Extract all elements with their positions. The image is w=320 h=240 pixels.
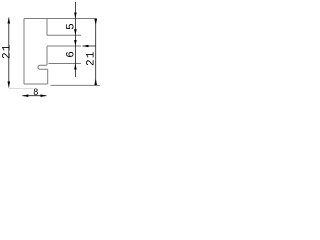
dimension 21 left: line bbox=[8, 18, 10, 88]
part outline: inner vertical lower bbox=[47, 69, 49, 84]
part outline: slot bbox=[38, 65, 48, 69]
part outline: inner vertical upper bbox=[46, 19, 48, 36]
svg-text:21: 21 bbox=[86, 50, 98, 66]
svg-text:6: 6 bbox=[66, 51, 78, 58]
dimension 8: right arrow bbox=[41, 94, 47, 97]
leader arrow at mid-right pointing left bbox=[83, 45, 96, 47]
dimension 8: left arrow bbox=[22, 94, 28, 97]
part outline: left edge bbox=[23, 19, 25, 85]
dimension 6: top arrow (pointing down at mid line) bbox=[74, 40, 77, 46]
dimension 5: bottom arrow (pointing down at tab bottom) bbox=[74, 29, 77, 35]
dimension 21 left: bottom arrow bbox=[8, 82, 11, 88]
svg-text:5: 5 bbox=[66, 23, 78, 30]
dimension 5/6 shared line bbox=[74, 2, 76, 77]
dimension 5: top arrow (above top edge, pointing down) bbox=[74, 13, 77, 19]
part outline: tab bottom edge bbox=[47, 34, 81, 36]
part outline: lower-right block top edge bbox=[49, 63, 82, 65]
dimension 21 right: top arrow bbox=[94, 19, 97, 25]
part outline: bottom-right edge bbox=[51, 84, 101, 86]
svg-text:21: 21 bbox=[1, 43, 13, 59]
dimension 21 left: top arrow bbox=[8, 18, 11, 24]
dimension 21 left: bottom extension line bbox=[9, 87, 34, 89]
dimension 6: bottom arrow (pointing up at lower block top) bbox=[74, 64, 77, 70]
dimension 8: line bbox=[22, 95, 46, 97]
part outline: mid horizontal edge bbox=[47, 45, 81, 47]
part outline: inner vertical mid bbox=[46, 46, 48, 65]
dimension 21 right: bottom arrow bbox=[94, 78, 97, 85]
part outline: top edge bbox=[24, 18, 97, 20]
svg-text:8: 8 bbox=[33, 86, 38, 98]
dimension 21 right: line bbox=[95, 19, 97, 86]
part outline: bottom-left edge bbox=[24, 83, 48, 85]
